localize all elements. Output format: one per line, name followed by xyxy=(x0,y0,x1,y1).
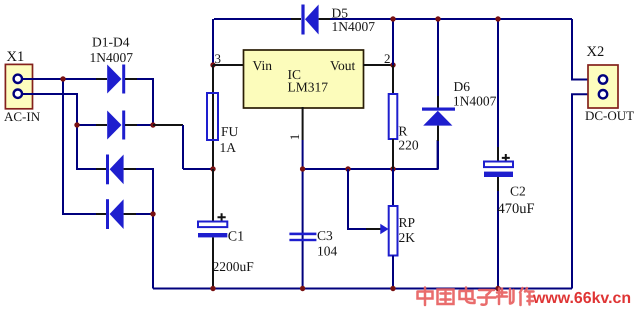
potentiometer RP xyxy=(348,169,398,289)
diode D3 xyxy=(106,155,124,185)
svg-text:Vout: Vout xyxy=(330,58,356,73)
svg-text:FU: FU xyxy=(221,124,239,139)
wire X1 bottom pin down to D3 row xyxy=(22,94,106,169)
capacitor C3 xyxy=(289,233,316,242)
diode D2 xyxy=(107,111,125,140)
svg-text:AC-IN: AC-IN xyxy=(4,109,41,124)
pin 2 stub from IC xyxy=(363,64,393,66)
node fuse C1 junction xyxy=(210,166,215,171)
svg-text:X1: X1 xyxy=(7,49,25,65)
label C3 104 xyxy=(317,228,338,259)
label C1 2200uF xyxy=(213,230,255,275)
node bottom rail C3 xyxy=(300,286,305,291)
wire pin1 down through adjust node to C3 xyxy=(302,140,304,289)
svg-text:470uF: 470uF xyxy=(498,201,535,217)
wire adjust row y=169 xyxy=(303,140,438,169)
label C2 470uF xyxy=(498,184,535,218)
node bottom rail C2 xyxy=(495,286,500,291)
svg-text:DC-OUT: DC-OUT xyxy=(585,108,634,123)
connector X2 xyxy=(585,44,634,123)
resistor R xyxy=(389,65,398,169)
node top rail R junction xyxy=(390,16,395,21)
fuse FU1 xyxy=(207,93,218,140)
svg-text:1N4007: 1N4007 xyxy=(453,94,497,109)
wire X2 top feed xyxy=(572,19,599,80)
wire AC2 branch to D2 anode xyxy=(77,124,107,126)
svg-text:D1-D4: D1-D4 xyxy=(92,35,130,50)
watermark chinese characters xyxy=(418,288,534,306)
svg-text:1N4007: 1N4007 xyxy=(90,50,134,65)
pin 3 stub to IC xyxy=(213,64,243,66)
svg-text:D6: D6 xyxy=(454,79,471,94)
svg-text:R: R xyxy=(398,124,407,139)
diode D6 xyxy=(422,19,455,169)
wire D2 cathode stub xyxy=(125,124,153,126)
svg-text:1: 1 xyxy=(287,134,302,141)
node AC2 junction xyxy=(74,122,79,127)
svg-text:2200uF: 2200uF xyxy=(213,259,255,274)
label R 220 xyxy=(398,124,419,153)
svg-text:www.66kv.cn: www.66kv.cn xyxy=(532,290,631,307)
node top rail C2 junction xyxy=(495,16,500,21)
wire pin2 node to top rail xyxy=(392,19,394,65)
node adjust pin1 junction xyxy=(300,166,305,171)
diode D4 xyxy=(106,199,124,229)
node R-RP junction xyxy=(390,166,395,171)
svg-text:2: 2 xyxy=(384,51,391,66)
wire bridge + jog to fuse bottom node xyxy=(153,125,213,169)
diode D5 xyxy=(301,5,318,35)
wire top rail right (Vout side) xyxy=(319,18,572,20)
svg-text:C1: C1 xyxy=(228,230,244,245)
capacitor C2 xyxy=(484,19,513,289)
node bottom rail RP xyxy=(390,286,395,291)
svg-text:C3: C3 xyxy=(317,228,333,243)
wire D3 anode to - rail xyxy=(124,169,153,289)
wire X2 bottom return xyxy=(572,94,599,288)
wire D4 anode stub xyxy=(124,213,153,215)
node wiper branch junction xyxy=(345,166,350,171)
label D1-D4 1N4007 xyxy=(90,35,134,65)
op-amp regulator IC LM317 xyxy=(244,50,364,108)
connector X1 xyxy=(4,49,41,124)
node bottom rail C1 xyxy=(210,286,215,291)
svg-text:2K: 2K xyxy=(399,230,416,245)
wire top rail left (Vin side) xyxy=(213,19,301,65)
svg-text:Vin: Vin xyxy=(253,58,273,73)
node pin2 junction xyxy=(390,62,395,67)
label FU 1A xyxy=(220,124,239,155)
svg-text:3: 3 xyxy=(215,51,222,66)
svg-text:1N4007: 1N4007 xyxy=(332,19,376,34)
wire fuse line (pin3 node to C1 node) xyxy=(212,65,214,169)
svg-text:RP: RP xyxy=(399,215,416,230)
svg-text:104: 104 xyxy=(317,244,338,259)
node pin3 junction xyxy=(210,62,215,67)
capacitor C1 xyxy=(198,169,227,289)
svg-text:1A: 1A xyxy=(220,140,237,155)
svg-text:X2: X2 xyxy=(587,44,605,60)
node AC1 junction xyxy=(60,76,65,81)
label D5 1N4007 xyxy=(332,6,376,35)
wire D1 cathode to + node xyxy=(125,79,153,125)
svg-text:220: 220 xyxy=(398,138,419,153)
node bridge + junction xyxy=(150,122,155,127)
svg-text:LM317: LM317 xyxy=(288,80,329,95)
pin 1 stub from IC bottom xyxy=(302,107,304,140)
node bridge - junction xyxy=(150,211,155,216)
label RP 2K xyxy=(399,215,416,245)
diode D1 xyxy=(107,65,125,94)
wire bottom rail xyxy=(153,288,572,290)
label D6 1N4007 xyxy=(453,79,497,109)
node top rail D6 junction xyxy=(435,16,440,21)
wire X1 top pin to D1 anode xyxy=(22,78,107,80)
wire AC1 branch down to D4 row xyxy=(63,79,106,214)
svg-text:C2: C2 xyxy=(510,184,526,199)
